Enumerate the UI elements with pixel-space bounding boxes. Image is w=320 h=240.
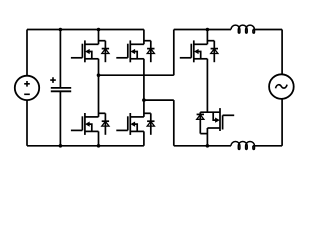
inductor L2 xyxy=(231,141,254,149)
transistor Q1 (top-left, with body diode) xyxy=(71,40,109,62)
node: bridge output B xyxy=(142,98,146,102)
voltage source V1 (DC) xyxy=(15,76,39,100)
wire: right bottom rail xyxy=(174,145,282,147)
transistor Q6 (half-bridge bottom, mirrored, with body diode) xyxy=(197,108,235,134)
transistor Q4 (bottom-right, with body diode) xyxy=(116,113,154,135)
wire: AC source bottom lead xyxy=(281,99,283,146)
wire: right top rail xyxy=(174,29,282,31)
wire: left top rail xyxy=(27,29,144,31)
wire: bridge left leg xyxy=(98,30,100,146)
node: Q5 drain junction xyxy=(206,28,210,32)
node: Q1 drain junction xyxy=(97,28,101,32)
node: bridge output A xyxy=(97,73,101,77)
wire: left bottom rail xyxy=(27,145,144,147)
wire: AC source top lead xyxy=(281,30,283,75)
transistor Q5 (half-bridge top, with body diode) xyxy=(180,40,218,62)
node: Q6 source junction xyxy=(206,144,210,148)
inductor L1 xyxy=(231,25,254,33)
wire: capacitor branch bottom xyxy=(59,91,61,146)
wire: bridge output A to half-bridge top xyxy=(99,30,174,76)
transistor Q2 (top-right, with body diode) xyxy=(116,40,154,62)
node: cap bottom junction xyxy=(59,144,63,148)
wire: half-bridge leg xyxy=(206,30,208,146)
capacitor C1 xyxy=(51,87,71,89)
wire: capacitor branch top xyxy=(59,30,61,88)
wire: bridge right leg xyxy=(143,30,145,146)
wire: DC source top lead xyxy=(26,30,28,77)
node: Q3 source junction xyxy=(97,144,101,148)
node: cap top junction xyxy=(59,28,63,32)
transistor Q3 (bottom-left, with body diode) xyxy=(71,113,109,135)
wire: DC source bottom lead xyxy=(26,100,28,146)
voltage source V2 (AC) xyxy=(269,74,294,99)
wire: bridge output B to half-bridge bottom xyxy=(144,100,174,146)
